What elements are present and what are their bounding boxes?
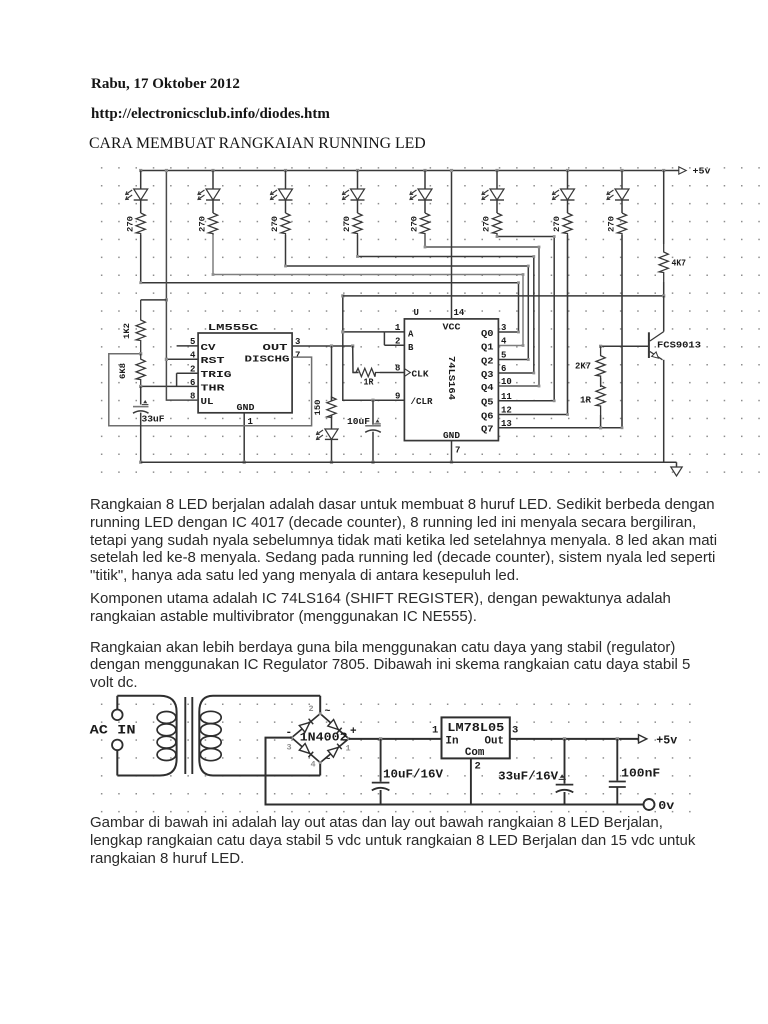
junction corner LED1 drop <box>139 281 142 284</box>
wire LED8 cathode to R8 <box>621 200 623 213</box>
diode D3 top-right <box>320 714 349 739</box>
svg-text:2K7: 2K7 <box>575 362 591 372</box>
svg-text:2: 2 <box>395 337 400 347</box>
resistor R2 6K8 <box>136 354 145 387</box>
junction node bridge left <box>290 736 293 739</box>
junction corner LED5 bus <box>538 246 541 249</box>
wire +5v top rail <box>141 170 683 172</box>
svg-text:1: 1 <box>432 725 438 737</box>
svg-text:GND: GND <box>443 431 461 441</box>
svg-text:OUT: OUT <box>263 343 289 353</box>
svg-text:10uF: 10uF <box>347 416 370 427</box>
svg-text:6: 6 <box>501 364 506 374</box>
transformer core <box>184 697 186 774</box>
svg-text:10: 10 <box>501 377 512 387</box>
svg-text:+5v: +5v <box>693 167 712 177</box>
svg-text:Q2: Q2 <box>481 356 494 366</box>
wire net VCC 555 <box>166 171 198 401</box>
LED D2 <box>206 189 220 200</box>
wire 0V rail <box>266 738 644 805</box>
svg-text:270: 270 <box>552 216 562 232</box>
junction node A tie <box>341 330 344 333</box>
wire net CLR to A <box>343 331 385 333</box>
wire pin stub Q0 <box>498 331 518 333</box>
svg-text:Out: Out <box>485 736 505 748</box>
resistor R6 270 <box>492 213 501 235</box>
wire AC top lead <box>116 696 118 710</box>
svg-text:In: In <box>445 736 458 748</box>
junction node R5-collector <box>662 294 665 297</box>
svg-text:1N4002: 1N4002 <box>300 731 348 745</box>
svg-text:+5v: +5v <box>656 734 677 748</box>
capacitor C6 100nF <box>609 781 626 783</box>
junction node R7-Q7 <box>599 426 602 429</box>
wire net LED2 to Q1 <box>213 235 523 346</box>
junction node bridge bottom <box>319 761 322 764</box>
junction rail node LED2 <box>211 169 214 172</box>
junction corner LED3 drop <box>284 265 287 268</box>
wire LED6 anode <box>496 171 498 190</box>
LED D3 <box>279 189 293 200</box>
resistor R3 270 <box>281 213 290 235</box>
wire R7 bottom lead <box>600 415 602 428</box>
junction node C5 top <box>563 737 566 740</box>
junction corner Q2 pin <box>527 358 530 361</box>
LED D1 <box>134 189 148 200</box>
wire net DISCHG loop <box>109 354 312 426</box>
svg-text:THR: THR <box>201 384 226 394</box>
junction rail node C1 <box>139 461 142 464</box>
junction rail node C3 <box>371 461 374 464</box>
primary winding loop <box>157 724 176 736</box>
svg-text:3: 3 <box>501 323 506 333</box>
wire wire R4 to CLK <box>380 372 404 374</box>
junction node bridge top <box>319 712 322 715</box>
svg-text:Q5: Q5 <box>481 398 494 408</box>
wire AC bottom lead <box>116 750 118 775</box>
wire R5 bottom lead <box>663 282 665 296</box>
junction node C6 top <box>616 737 619 740</box>
junction corner LED7 drop <box>566 413 569 416</box>
svg-text:/CLR: /CLR <box>411 397 434 407</box>
svg-text:5: 5 <box>501 351 506 361</box>
junction rail node LED4 <box>356 169 359 172</box>
wire GND wire pin7 <box>451 441 453 462</box>
junction rail node LED6 <box>495 169 498 172</box>
diode D2 left-top <box>292 714 321 738</box>
svg-text:LM555C: LM555C <box>208 322 258 333</box>
wire C4 bottom lead <box>380 790 382 805</box>
svg-text:1R: 1R <box>364 378 375 388</box>
wire pin stub CV <box>177 345 199 347</box>
svg-text:TRIG: TRIG <box>201 370 232 380</box>
junction rail node LED7 <box>566 169 569 172</box>
clock input symbol <box>404 369 410 377</box>
wire LED4 cathode to R4 <box>357 200 359 213</box>
svg-text:GND: GND <box>237 403 256 413</box>
wire C5 top lead <box>564 739 566 784</box>
terminal 0V <box>644 799 655 810</box>
junction corner LED4 bus <box>532 255 535 258</box>
svg-text:270: 270 <box>125 216 135 232</box>
power arrow +5v <box>679 167 686 174</box>
wire LED3 anode <box>285 171 287 190</box>
wire net LED5 to Q4 <box>425 235 539 386</box>
svg-text:4: 4 <box>311 760 316 770</box>
wire net base/clear horizontal <box>343 295 664 297</box>
wire wire sec to bridge top <box>319 696 321 714</box>
capacitor C3 10uF <box>365 425 381 427</box>
wire LED1 cathode to R1 <box>140 200 142 213</box>
LED D9 indicator <box>325 429 338 439</box>
svg-text:LM78L05: LM78L05 <box>447 722 504 735</box>
svg-text:1: 1 <box>395 323 401 333</box>
svg-text:11: 11 <box>501 392 512 402</box>
svg-text:~: ~ <box>325 707 331 718</box>
LED D5 <box>418 189 432 200</box>
svg-text:Q6: Q6 <box>481 411 494 421</box>
svg-text:7: 7 <box>455 446 460 456</box>
svg-text:13: 13 <box>501 419 512 429</box>
svg-text:+: + <box>350 726 357 738</box>
wire LED5 cathode to R5 <box>424 200 426 213</box>
wire ground stub <box>676 462 678 467</box>
junction rail node R5 <box>662 169 665 172</box>
junction corner LED1 bus <box>517 281 520 284</box>
junction rail node D9 <box>330 461 333 464</box>
svg-text:2: 2 <box>475 761 481 773</box>
wire pin stub Q1 <box>498 345 523 347</box>
IC U1 LM555C <box>198 333 292 413</box>
svg-text:U: U <box>414 308 419 318</box>
junction corner Q4 pin <box>538 385 541 388</box>
junction corner LED3 bus <box>527 265 530 268</box>
junction node C3 top <box>371 399 374 402</box>
junction corner LED6 bus <box>553 235 556 238</box>
resistor R7 1R <box>596 378 605 415</box>
svg-text:100nF: 100nF <box>621 767 660 781</box>
wire LED3 cathode to R3 <box>285 200 287 213</box>
svg-text:UL: UL <box>201 397 214 407</box>
wire GND wire pin1 <box>243 413 245 462</box>
junction rail node VCC 555 <box>165 169 168 172</box>
junction node bridge right <box>347 737 350 740</box>
svg-text:270: 270 <box>342 216 352 232</box>
wire pin stub Q4 <box>498 385 539 387</box>
primary winding loop <box>157 712 176 724</box>
wire TRIG-THR tie <box>176 373 178 386</box>
svg-text:2: 2 <box>309 704 314 714</box>
polarity mark C3 <box>376 419 380 422</box>
grid dots schematic 1 <box>101 167 760 473</box>
terminal AC top <box>112 710 123 721</box>
junction corner LED8 drop <box>621 426 624 429</box>
wire wire sec to bridge bottom <box>319 763 321 776</box>
wire C6 bottom lead <box>616 787 618 805</box>
wire collector wire <box>663 296 665 332</box>
svg-text:6K8: 6K8 <box>118 363 128 379</box>
svg-text:Q1: Q1 <box>481 342 494 352</box>
wire wire OUT to R4 <box>353 346 359 373</box>
wire net LED1 to Q0 <box>141 235 519 332</box>
junction corner Q1 pin <box>522 344 525 347</box>
junction rail node LED5 <box>423 169 426 172</box>
svg-text:270: 270 <box>482 216 492 232</box>
wire LED6 cathode to R6 <box>496 200 498 213</box>
capacitor C5 33uF/16V <box>556 784 574 786</box>
svg-text:4: 4 <box>501 337 507 347</box>
svg-text:33uF: 33uF <box>142 414 165 425</box>
wire pin stub Q6 <box>498 414 567 416</box>
emitter arrow <box>652 352 659 358</box>
junction corner Q0 pin <box>517 331 520 334</box>
wire LED7 cathode to R7 <box>567 200 569 213</box>
wire wire D9 to gnd <box>331 440 333 463</box>
capacitor C4 10uF/16V <box>372 782 390 784</box>
junction rail node LED1 <box>139 169 142 172</box>
junction node R1 top tie <box>165 298 168 301</box>
resistor R8 270 <box>617 213 626 235</box>
secondary winding loop <box>200 749 221 761</box>
junction corner LED2 bus <box>522 273 525 276</box>
svg-text:270: 270 <box>607 216 617 232</box>
resistor R6 2K7 <box>596 346 605 387</box>
power arrow +5v out <box>639 735 647 743</box>
wire net THR <box>141 385 198 387</box>
svg-text:74LS164: 74LS164 <box>446 356 457 400</box>
junction rail node LED8 <box>620 169 623 172</box>
svg-text:CLK: CLK <box>412 370 430 380</box>
junction node OUT corner <box>351 344 354 347</box>
wire net LED6 to Q5 <box>497 235 554 401</box>
primary winding loop <box>157 736 176 748</box>
resistor R2 270 <box>208 213 217 235</box>
junction rail node GND U2 <box>450 460 453 463</box>
junction node R1-R2 <box>139 352 142 355</box>
wire wire bridge to reg <box>349 738 442 740</box>
junction corner Q3 pin <box>532 372 535 375</box>
resistor R7 270 <box>563 213 572 235</box>
wire wire OUT to R3 <box>331 346 333 401</box>
svg-text:AC IN: AC IN <box>90 724 136 738</box>
junction corner LED6 drop <box>496 235 499 238</box>
svg-text:7: 7 <box>295 350 300 360</box>
svg-text:Q0: Q0 <box>481 329 494 339</box>
wire pin stub Q5 <box>498 400 554 402</box>
svg-text:1K2: 1K2 <box>122 323 132 339</box>
secondary winding loop <box>200 724 221 736</box>
transformer T1 secondary <box>199 696 320 776</box>
svg-text:Com: Com <box>465 747 485 759</box>
resistor R4 1R <box>353 368 380 376</box>
wire VCC wire pin14 <box>451 171 453 319</box>
wire LED2 anode <box>212 171 214 190</box>
LED D4 <box>351 189 365 200</box>
wire LED5 anode <box>424 171 426 190</box>
svg-text:A: A <box>408 330 414 340</box>
wire pin stub Q2 <box>498 359 528 361</box>
capacitor C1 33uF <box>133 406 149 408</box>
wire wire R3 to D9 <box>331 415 333 429</box>
polarity mark C5 <box>560 774 565 778</box>
resistor R5 4K7 <box>659 244 668 282</box>
svg-text:Q7: Q7 <box>481 425 494 435</box>
junction corner LED2 drop <box>212 273 215 276</box>
wire net LED8 to Q7 <box>621 235 623 428</box>
wire C5 bottom lead <box>564 792 566 805</box>
wire C1 bottom lead <box>140 413 142 463</box>
wire pin stub B2 <box>384 344 404 346</box>
wire C1 top lead <box>140 386 142 404</box>
transistor Q1 FCS9013 <box>648 332 650 358</box>
svg-text:12: 12 <box>501 406 512 416</box>
svg-text:DISCHG: DISCHG <box>245 355 290 365</box>
svg-text:10uF/16V: 10uF/16V <box>383 768 444 782</box>
junction rail node GND 555 <box>243 461 246 464</box>
resistor R1 270 <box>136 213 145 235</box>
wire R5 top lead <box>663 171 665 245</box>
junction corner LED4 drop <box>356 255 359 258</box>
svg-text:CV: CV <box>201 343 217 353</box>
junction node R2-THR <box>139 385 142 388</box>
resistor R5 270 <box>420 213 429 235</box>
regulator U3 LM78L05 <box>442 717 510 758</box>
terminal AC bottom <box>112 740 123 751</box>
LED D8 <box>615 189 629 200</box>
wire base wire <box>601 345 649 347</box>
svg-text:~: ~ <box>325 755 331 766</box>
junction node base-R6 <box>599 345 602 348</box>
wire ground rail <box>141 461 677 463</box>
wire pin stub A1 <box>384 331 404 333</box>
svg-text:1R: 1R <box>580 396 592 406</box>
resistor R1 1K2 <box>136 300 145 354</box>
secondary winding loop <box>200 711 221 723</box>
junction corner LED5 drop <box>424 246 427 249</box>
svg-text:150: 150 <box>313 400 323 416</box>
primary winding loop <box>157 749 176 761</box>
wire net LED3 to Q2 <box>286 235 529 360</box>
wire LED4 anode <box>357 171 359 190</box>
junction rail node VCC U2 <box>450 169 453 172</box>
svg-text:3: 3 <box>512 725 518 737</box>
polarity mark C1 <box>143 400 147 403</box>
svg-text:Q4: Q4 <box>481 383 494 393</box>
junction node CLR top <box>341 294 344 297</box>
wire net LED7 to Q6 <box>567 235 569 415</box>
IC U2 74LS164 <box>404 319 498 441</box>
junction node C4 top <box>379 737 382 740</box>
resistor R4 270 <box>353 213 362 235</box>
wire pin stub Q7 <box>498 427 622 429</box>
junction corner Q5 pin <box>553 399 556 402</box>
wire C3 top lead <box>372 400 374 425</box>
junction rail node LED3 <box>284 169 287 172</box>
wire LED2 cathode to R2 <box>212 200 214 213</box>
svg-text:3: 3 <box>287 743 292 753</box>
svg-text:RST: RST <box>201 356 226 366</box>
svg-text:VCC: VCC <box>443 323 462 333</box>
wire emitter wire <box>663 360 665 462</box>
diode D4 left-bottom <box>292 738 321 763</box>
wire A-B tie <box>383 332 385 345</box>
svg-text:0v: 0v <box>658 799 674 813</box>
wire R1 top tie wire <box>141 299 167 301</box>
LED D6 <box>490 189 504 200</box>
svg-text:Q3: Q3 <box>481 370 494 380</box>
secondary winding loop <box>200 736 221 748</box>
wire LED7 anode <box>567 171 569 190</box>
svg-text:14: 14 <box>454 308 465 318</box>
svg-text:1: 1 <box>346 744 351 754</box>
grid dots schematic 2 <box>101 704 691 813</box>
wire net CLR vertical <box>343 296 405 400</box>
svg-text:FCS9013: FCS9013 <box>657 340 701 351</box>
svg-text:B: B <box>408 343 414 353</box>
svg-text:4K7: 4K7 <box>672 259 687 269</box>
wire pin stub Q3 <box>498 372 533 374</box>
LED D7 <box>561 189 575 200</box>
wire C6 top lead <box>616 739 618 781</box>
wire Com wire <box>470 758 472 804</box>
transformer T1 primary <box>117 696 176 776</box>
wire LED8 anode <box>621 171 623 190</box>
wire C4 top lead <box>380 739 382 782</box>
wire LED1 anode <box>140 171 142 190</box>
svg-text:270: 270 <box>198 216 208 232</box>
junction node RST tie <box>165 358 168 361</box>
svg-text:270: 270 <box>410 216 420 232</box>
wire net LED4 to Q3 <box>358 235 534 373</box>
resistor R3 150 <box>327 397 336 418</box>
wire pin stub TRIG <box>177 372 199 374</box>
diode D5 bottom-right <box>320 739 349 763</box>
junction node OUT tee <box>330 344 333 347</box>
svg-text:270: 270 <box>270 216 280 232</box>
wire C3 bottom lead <box>372 432 374 463</box>
wire pin stub RST <box>166 358 198 360</box>
svg-text:33uF/16V: 33uF/16V <box>498 770 559 784</box>
wire +5v out wire <box>510 738 639 740</box>
wire net OUT <box>292 345 353 347</box>
